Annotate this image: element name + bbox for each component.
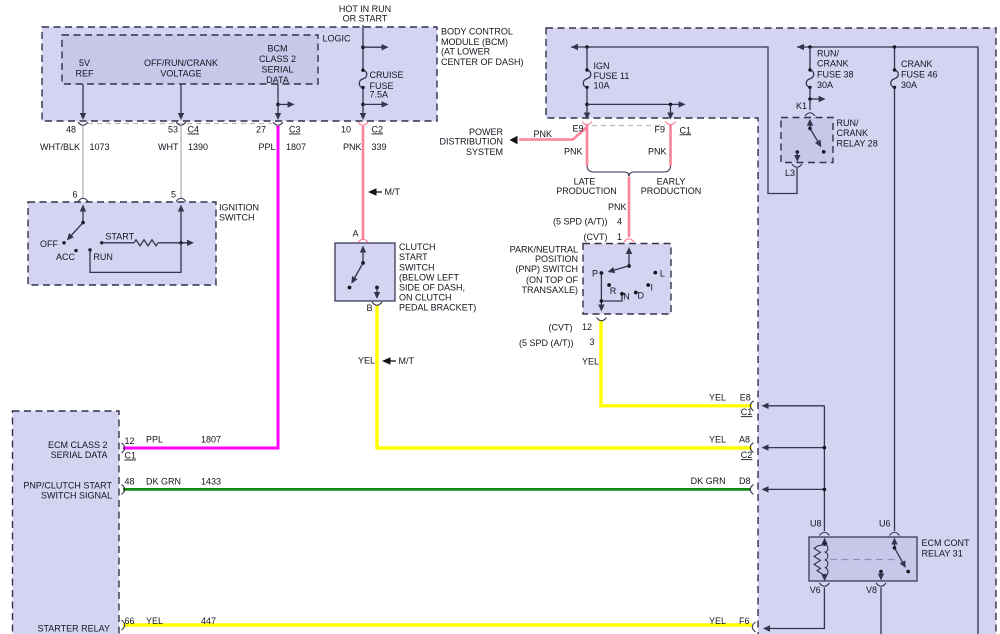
svg-text:C1: C1 [680,125,692,135]
svg-text:ACC: ACC [56,252,76,262]
junction dot at run feed [179,241,183,245]
wire below fuse 38 [809,87,811,99]
svg-text:M/T: M/T [399,356,415,366]
svg-text:RELAY 31: RELAY 31 [922,548,963,558]
svg-text:YEL: YEL [709,393,726,403]
wire PNK 339 (circuit 339) [362,126,365,240]
svg-text:5V: 5V [79,58,90,68]
svg-text:SWITCH: SWITCH [219,213,255,223]
brace late/early production [587,166,671,177]
PNP P to pin 12 wire with N branch [600,273,602,307]
svg-text:VOLTAGE: VOLTAGE [160,69,201,79]
K1 run/crank relay 28 box [781,118,833,163]
wire V8 down [880,588,882,634]
svg-text:DATA: DATA [266,75,289,85]
connector arc E8 [750,401,753,411]
svg-text:POWER: POWER [469,127,504,137]
serial data branch arrow right [278,103,288,105]
svg-text:12: 12 [582,322,592,332]
clutch switch pin A arrow up [360,246,366,253]
svg-text:7.5A: 7.5A [370,90,389,100]
clutch start switch box [335,243,395,301]
svg-text:M/T: M/T [385,187,401,197]
svg-text:REF: REF [76,69,95,79]
clutch switch lever [362,252,364,263]
svg-text:PNK: PNK [608,202,627,212]
svg-text:PNK: PNK [648,147,667,157]
wire YEL from PNP pin 12 to E8 [601,321,752,406]
svg-text:C4: C4 [188,125,200,135]
BCM class 2 serial data wire [277,84,279,114]
svg-text:PRODUCTION: PRODUCTION [556,186,617,196]
svg-text:27: 27 [256,125,266,135]
START resistor feed line [102,242,134,244]
svg-text:CRUISE: CRUISE [370,70,404,80]
svg-text:EARLY: EARLY [657,176,686,186]
junction dot E9/F9 split [585,103,589,107]
svg-text:DISTRIBUTION: DISTRIBUTION [439,137,503,147]
svg-text:SWITCH: SWITCH [399,263,435,273]
N contact dot [620,292,624,296]
connector arc V8 [876,583,886,586]
svg-text:(AT LOWER: (AT LOWER [441,47,491,57]
svg-text:PNP/CLUTCH START: PNP/CLUTCH START [23,480,112,490]
K1 relay L3 output contact [796,150,800,154]
svg-text:ECM CONT: ECM CONT [922,538,970,548]
vertical line joining E8/A8/D8 to U8 [823,406,825,531]
svg-text:66: 66 [125,616,135,626]
PNP switch box [583,244,671,315]
D contact dot [634,291,638,295]
connector arc F6 [752,622,755,632]
junction dot cruise branch 2 [361,103,365,107]
connector arc D8 [750,484,753,494]
svg-text:4: 4 [617,217,622,227]
svg-text:B: B [366,303,372,313]
svg-text:A8: A8 [739,435,750,445]
svg-text:1390: 1390 [188,142,208,152]
ECM relay coil (zigzag + coil bumps) [821,538,827,545]
svg-text:FUSE 38: FUSE 38 [817,70,854,80]
PNP pin 1 connector arc [624,239,634,242]
svg-text:(BELOW LEFT: (BELOW LEFT [399,272,460,282]
horizontal bus A in fuse block (to IGN fuse and relay feed) [571,47,797,194]
svg-text:K1: K1 [796,101,807,111]
clutch switch pin B connector arc [372,302,382,305]
junction dot cruise branch 1 [361,45,365,49]
BCM off/run/crank voltage output wire [180,84,182,114]
connector arc A8 [750,443,753,453]
svg-text:(ON TOP OF: (ON TOP OF [526,275,579,285]
svg-text:ON CLUTCH: ON CLUTCH [399,293,452,303]
wire PNK to power distribution system [519,124,587,140]
K1 pin wire down [808,97,812,101]
svg-text:YEL: YEL [709,616,726,626]
M/T arrow upper (on PNK 339) [368,188,382,196]
svg-text:48: 48 [125,477,135,487]
IGN fuse 11 10A [583,47,591,89]
connector arc L3 [792,164,802,167]
junction dot fuse 46 tap [893,45,897,49]
branch arrow right below fuse 38 [810,98,819,100]
svg-text:L: L [660,269,665,279]
svg-text:V6: V6 [810,585,821,595]
svg-text:FUSE 11: FUSE 11 [594,71,630,81]
svg-text:R: R [610,286,617,296]
connector arc pin 27 [273,122,283,125]
START contact dot [100,241,103,244]
connector arc pin 53 [176,122,186,125]
svg-text:CENTER OF DASH): CENTER OF DASH) [441,57,524,67]
svg-text:10A: 10A [594,81,610,91]
branch arrow right (top) [363,46,382,48]
svg-text:SYSTEM: SYSTEM [466,147,503,157]
K1 relay switch lever [807,119,813,126]
connector arc V6 [819,583,829,586]
connector arc F9 [666,122,676,125]
E8 arrow line [764,405,825,407]
ECM pin 66 connector arc [122,620,125,630]
R contact dot [607,283,611,287]
svg-text:(CVT): (CVT) [549,323,573,333]
CRANK fuse 46 30A [891,47,899,89]
svg-text:START: START [399,252,428,262]
svg-text:SWITCH SIGNAL: SWITCH SIGNAL [41,490,112,500]
svg-text:LATE: LATE [574,176,596,186]
P contact dot [600,271,604,275]
svg-text:E9: E9 [572,123,583,133]
power distribution system black arrow [510,136,518,144]
M/T arrow lower (on YEL) [382,357,396,365]
svg-text:CRANK: CRANK [837,128,869,138]
PNP lever from pin 1 [626,247,632,254]
svg-text:V8: V8 [866,585,877,595]
connector arc U6 [890,532,900,535]
svg-text:MODULE (BCM): MODULE (BCM) [441,37,508,47]
wire below cruise fuse [362,88,364,114]
svg-text:(PNP) SWITCH: (PNP) SWITCH [516,264,579,274]
wire PNK early production (F9 drop) [669,124,672,166]
OFF contact dot [62,241,65,244]
clutch switch pin A connector arc [358,239,368,242]
pin 53 arrow [178,113,184,120]
svg-text:C2: C2 [741,450,753,460]
wire PPL 1807 (circuit 1807) [123,126,278,448]
gray dashed connector row E9-F9 [592,125,665,127]
svg-text:30A: 30A [817,80,833,90]
svg-text:LOGIC: LOGIC [323,34,352,44]
svg-text:WHT/BLK: WHT/BLK [40,142,80,152]
ECM cont relay 31 box [809,537,917,581]
branch arrow right (below fuse) [363,103,382,105]
svg-text:C3: C3 [289,125,301,135]
svg-text:PPL: PPL [258,142,275,152]
ignition switch pin 6 arrow up [80,205,86,212]
svg-text:PNK: PNK [533,129,552,139]
svg-text:OR START: OR START [343,14,388,24]
svg-text:(CVT): (CVT) [584,232,608,242]
svg-text:SERIAL: SERIAL [261,65,293,75]
connector arc K1 [805,113,815,116]
svg-text:RELAY 28: RELAY 28 [837,138,878,148]
svg-text:I: I [651,282,654,292]
pin 10 arrow into C2 [360,113,366,120]
svg-text:N: N [623,292,630,302]
wire DK GRN 1433 (circuit 1433) [123,488,751,491]
ECM pin 12 connector arc [122,443,125,453]
ECM relay internal dashed link [830,559,897,561]
connector arc pin 48 [78,122,88,125]
svg-text:C2: C2 [372,125,384,135]
wire WHT 1390 (circuit 1390) [180,126,182,198]
svg-text:ECM CLASS 2: ECM CLASS 2 [48,440,108,450]
A8 arrow line [764,447,825,449]
svg-text:1807: 1807 [201,435,221,445]
svg-text:D8: D8 [739,476,751,486]
svg-text:WHT: WHT [158,142,179,152]
ignition switch pin 5 connector arc [176,198,186,201]
svg-text:447: 447 [201,616,216,626]
svg-text:PRODUCTION: PRODUCTION [641,186,702,196]
svg-text:YEL: YEL [146,616,163,626]
svg-text:339: 339 [372,142,387,152]
junction dot fuse 38 tap [808,45,812,49]
svg-text:1073: 1073 [90,142,110,152]
junction dot serial data branch [276,103,280,107]
ignition switch pin 6 connector arc [78,198,88,201]
L contact dot [653,271,657,275]
svg-text:(5 SPD (A/T)): (5 SPD (A/T)) [553,217,608,227]
ignition switch lever to pin 6 [82,211,84,223]
svg-text:E8: E8 [740,393,751,403]
BCM module box [42,27,437,121]
svg-text:CLUTCH: CLUTCH [399,242,436,252]
svg-text:U6: U6 [879,519,891,529]
svg-text:30A: 30A [901,80,917,90]
BCM 5V REF output wire [82,84,84,114]
PNP pin 12 connector arc [597,318,607,321]
wire WHT/BLK 1073 (circuit 1073) [82,126,84,198]
ECM pin 48 connector arc [122,484,125,494]
svg-text:RUN/: RUN/ [817,48,839,58]
svg-text:5: 5 [171,190,176,200]
svg-text:53: 53 [168,125,178,135]
wire HOT IN RUN OR START feed [362,25,364,70]
svg-text:OFF: OFF [40,239,58,249]
svg-text:DK GRN: DK GRN [146,477,181,487]
wire V6 down to F6 [765,588,824,629]
svg-text:YEL: YEL [582,357,599,367]
svg-text:CLASS 2: CLASS 2 [259,54,296,64]
RUN contact dot [88,248,91,251]
svg-text:CRANK: CRANK [901,59,933,69]
pin 27 arrow [275,113,281,120]
ignition switch box [28,202,216,285]
wire PNK late production (E9 drop) [586,124,589,166]
wire below IGN fuse [586,87,588,114]
connector arc pin 10 [358,122,368,125]
svg-text:PPL: PPL [146,435,163,445]
svg-text:POSITION: POSITION [535,254,578,264]
wire PNK to PNP switch pin 1 [628,177,631,237]
pin 48 arrow [80,113,86,120]
svg-text:HOT IN RUN: HOT IN RUN [339,4,391,14]
svg-text:A: A [352,229,358,239]
wire YEL from clutch switch B to A8 [377,305,752,448]
svg-text:L3: L3 [785,168,795,178]
wire fuse 46 down to U6 [894,87,896,531]
svg-text:1: 1 [617,232,622,242]
svg-text:CRANK: CRANK [817,59,849,69]
svg-text:PEDAL BRACKET): PEDAL BRACKET) [399,303,476,313]
svg-text:SIDE OF DASH,: SIDE OF DASH, [399,283,465,293]
svg-text:IGNITION: IGNITION [219,203,259,213]
cruise fuse 7.5A symbol [359,69,367,90]
F9 drop and arrow down [670,104,672,114]
horizontal bus B in fuse block (run/crank + crank fuses) [797,47,978,634]
svg-text:DK GRN: DK GRN [691,476,726,486]
D8 arrow line [764,488,825,490]
clutch switch output line to pin B [376,288,378,294]
svg-text:YEL: YEL [358,356,375,366]
BCM logic inner box [62,35,318,84]
svg-text:6: 6 [72,190,77,200]
svg-text:P: P [592,269,598,279]
K1 relay output contact dot [822,150,826,154]
E9 arrow down [584,113,590,120]
gray dashed connector row under BCM [88,123,272,125]
svg-text:PNK: PNK [564,147,583,157]
svg-text:TRANSAXLE): TRANSAXLE) [521,285,578,295]
svg-text:RUN/: RUN/ [837,118,859,128]
svg-text:IGN: IGN [594,61,610,71]
svg-text:10: 10 [341,125,351,135]
svg-text:1433: 1433 [201,477,221,487]
svg-text:12: 12 [125,436,135,446]
connector arc E9 [582,122,592,125]
junction dot IGN fuse tap [585,45,589,49]
svg-text:F6: F6 [739,616,750,626]
svg-text:BODY CONTROL: BODY CONTROL [441,27,513,37]
RUN/CRANK fuse 38 30A [806,47,814,89]
ignition pin 5 arrow up [178,205,184,212]
I contact dot [646,283,650,287]
svg-text:RUN: RUN [93,252,113,262]
svg-text:1807: 1807 [286,142,306,152]
line from resistor to junction and arrow right [158,242,188,244]
ECM relay switch [891,538,897,545]
svg-text:48: 48 [66,125,76,135]
wire RUN contact to pin 5 [90,211,181,273]
svg-text:STARTER RELAY: STARTER RELAY [37,623,110,633]
svg-text:(5 SPD (A/T)): (5 SPD (A/T)) [519,338,574,348]
svg-text:PNK: PNK [343,142,362,152]
svg-text:C1: C1 [125,451,137,461]
svg-text:START: START [105,232,134,242]
svg-text:C1: C1 [741,407,753,417]
clutch switch output contact dot [375,286,379,290]
wire YEL 447 (circuit 447, starter relay) [123,623,752,626]
ECM relay output contact to V8 [879,570,883,574]
svg-text:U8: U8 [810,519,822,529]
underhood fuse block box (right power distribution region) [546,28,996,634]
svg-text:OFF/RUN/CRANK: OFF/RUN/CRANK [144,58,218,68]
svg-text:F9: F9 [654,124,665,134]
svg-text:3: 3 [589,337,594,347]
svg-text:SERIAL DATA: SERIAL DATA [51,450,108,460]
svg-text:FUSE 46: FUSE 46 [901,70,938,80]
ECM module box (left bottom) [13,411,120,634]
svg-text:D: D [638,291,645,301]
svg-text:YEL: YEL [709,435,726,445]
branch line to F9 with arrow right [587,103,679,105]
svg-text:PARK/NEUTRAL: PARK/NEUTRAL [510,245,578,255]
connector arc U8 [819,532,829,535]
clutch switch contact dot (moving side) [348,286,352,290]
resistor zigzag (ignition start circuit) [134,240,158,246]
ACC contact dot [74,249,77,252]
svg-text:BCM: BCM [268,44,288,54]
